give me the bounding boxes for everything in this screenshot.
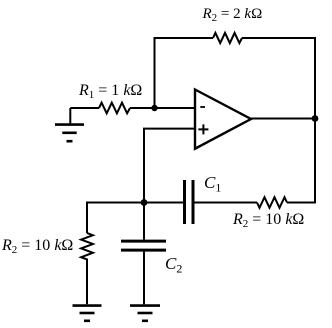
op-amp plus pin label	[198, 124, 208, 134]
svg-text:R2 = 2 kΩ: R2 = 2 kΩ	[202, 6, 263, 24]
wire C1 to center node	[144, 202, 183, 204]
svg-text:R2 = 10 kΩ: R2 = 10 kΩ	[232, 211, 304, 230]
wire center node to left branch	[87, 203, 144, 234]
resistor R2 right (10 kOhm) zigzag	[257, 197, 287, 208]
label R2 = 10 kOhm (left)	[1, 237, 73, 256]
wire top feedback loop right segment	[242, 38, 315, 119]
wire output down right side	[287, 119, 315, 203]
svg-text:C1: C1	[204, 173, 221, 195]
svg-text:C2: C2	[165, 254, 182, 276]
label R2 = 2 kOhm	[202, 6, 263, 24]
ground G2 (under R2 left)	[73, 306, 102, 321]
label C2	[165, 254, 182, 276]
wire from ground to R1	[70, 107, 99, 109]
node C center junction dot	[141, 199, 148, 206]
resistor R2 top (2 kOhm) zigzag	[213, 33, 242, 43]
op-amp minus pin label	[200, 106, 205, 108]
node A junction dot (inverting input)	[151, 105, 157, 111]
node B output junction dot	[312, 115, 319, 122]
resistor R2 left (10 kOhm) vertical zigzag	[81, 233, 93, 304]
wire C2 to ground	[143, 252, 145, 305]
label R2 = 10 kOhm (right)	[232, 211, 304, 230]
capacitor C1 plates	[185, 180, 194, 224]
capacitor C2 plates	[121, 241, 166, 250]
wire R2 right to C1	[195, 202, 258, 204]
ground G1 (left input ground)	[55, 108, 84, 141]
resistor R1 (1 kOhm) zigzag	[99, 103, 130, 114]
svg-text:R2 = 10 kΩ: R2 = 10 kΩ	[1, 237, 73, 256]
wire op-amp output	[251, 118, 315, 120]
op-amp U1	[195, 90, 251, 149]
wire non-inverting input	[144, 129, 195, 203]
label R1 = 1 kOhm	[78, 82, 142, 101]
wire top feedback loop left segment	[155, 38, 214, 109]
svg-text:R1 = 1 kΩ: R1 = 1 kΩ	[78, 82, 142, 101]
wire center node down to C2	[143, 203, 145, 240]
ground G3 (under C2)	[130, 306, 160, 321]
wire R1 to inverting input	[130, 107, 195, 109]
label C1	[204, 173, 221, 195]
